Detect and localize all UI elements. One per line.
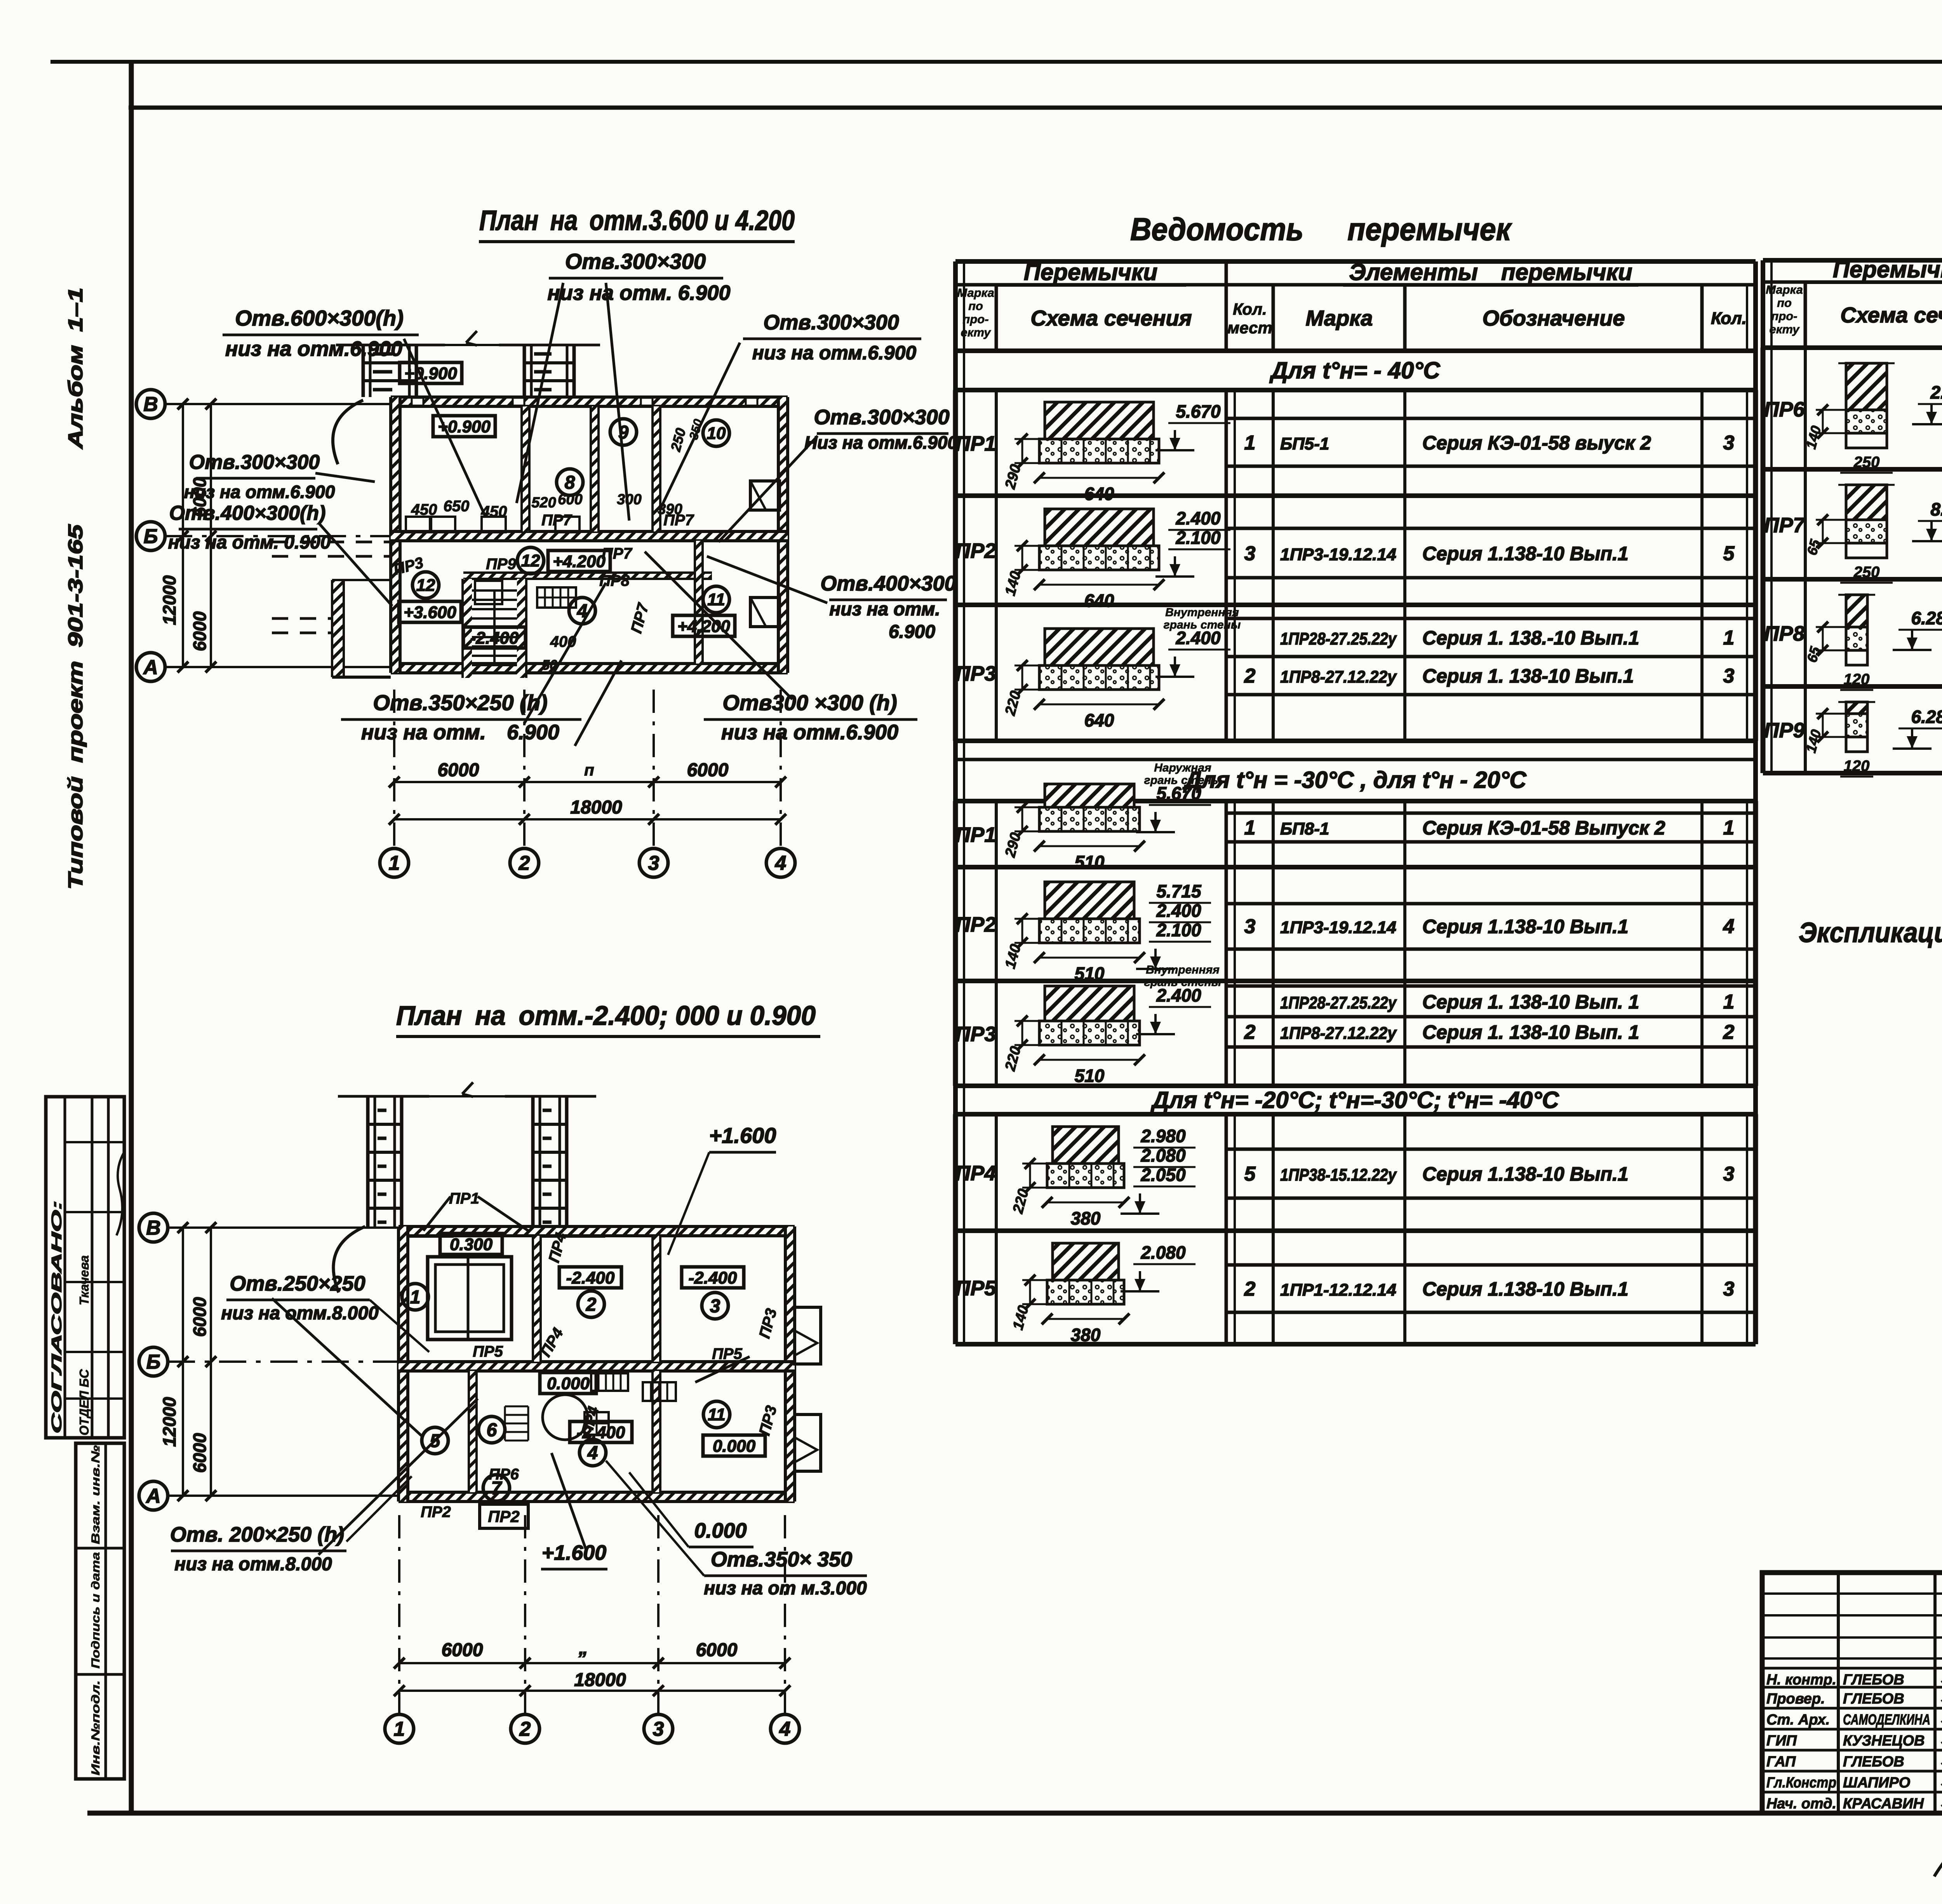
svg-text:ГИП: ГИП: [1766, 1733, 1797, 1749]
svg-text:по: по: [1777, 296, 1792, 310]
svg-text:В: В: [146, 1217, 161, 1239]
svg-text:Отв.400×300(h): Отв.400×300(h): [169, 502, 326, 524]
svg-text:ПР6: ПР6: [1764, 398, 1805, 421]
middle table row ПР3 section B: [955, 979, 1756, 983]
lower plan outer wall left: [398, 1226, 408, 1502]
svg-text:10: 10: [707, 424, 726, 443]
middle table header: [955, 259, 1756, 264]
upper plan door squares right wall: [750, 481, 780, 510]
svg-text:5: 5: [1244, 1163, 1256, 1185]
upper plan outer wall top: [391, 397, 788, 406]
svg-text:1ПР38-15.12.22у: 1ПР38-15.12.22у: [1280, 1165, 1397, 1185]
lower plan partition rooms 5|6: [469, 1371, 477, 1492]
svg-text:2.100: 2.100: [1175, 528, 1221, 548]
svg-text:Подпись и дата: Подпись и дата: [89, 1552, 102, 1669]
page frame bottom line: [87, 1811, 1942, 1816]
svg-text:1: 1: [389, 852, 400, 874]
lower plan bottom dimension chains: [399, 1662, 785, 1664]
svg-text:Схема сечения: Схема сечения: [1030, 306, 1192, 330]
svg-text:Отв.300×300: Отв.300×300: [763, 311, 899, 334]
right table row ПР7: [1763, 467, 1942, 472]
right table row ПР9: [1763, 684, 1942, 689]
svg-text:+1.600: +1.600: [542, 1541, 607, 1564]
svg-text:Отв.400×300: Отв.400×300: [820, 572, 956, 595]
svg-text:ГАП: ГАП: [1766, 1754, 1796, 1770]
svg-text:Ткачева: Ткачева: [77, 1255, 91, 1305]
svg-text:ПР9: ПР9: [1764, 719, 1805, 742]
svg-text:+4.200: +4.200: [553, 552, 606, 571]
upper plan corridor wall: [463, 573, 712, 579]
svg-text:ПР2: ПР2: [421, 1503, 451, 1521]
middle table row ПР1 section B: [955, 799, 1756, 803]
svg-text:ГЛЕБОВ: ГЛЕБОВ: [1843, 1691, 1904, 1707]
svg-text:про-: про-: [1771, 309, 1797, 323]
svg-text:2.400: 2.400: [1156, 901, 1201, 921]
svg-text:Отв.250×250: Отв.250×250: [230, 1272, 365, 1295]
svg-text:ПР8: ПР8: [1764, 622, 1805, 645]
middle table row ПР4: [955, 1112, 1756, 1117]
lower plan outer wall top: [398, 1226, 795, 1236]
svg-text:6000: 6000: [190, 1433, 210, 1473]
svg-text:ШАПИРО: ШАПИРО: [1843, 1775, 1910, 1791]
svg-text:Перемычки: Перемычки: [1833, 256, 1942, 282]
svg-text:низ на отм.6.900: низ на отм.6.900: [752, 342, 917, 364]
svg-text:2: 2: [519, 852, 530, 874]
right table row ПР8: [1763, 577, 1942, 582]
svg-text:низ на отм. 0.900: низ на отм. 0.900: [168, 532, 331, 553]
svg-text:КУЗНЕЦОВ: КУЗНЕЦОВ: [1843, 1733, 1925, 1749]
svg-text:ПР7: ПР7: [1764, 514, 1806, 537]
svg-text:2: 2: [519, 1718, 531, 1740]
svg-text:Для t°н= -20°С; t°н=-30°С; t°н: Для t°н= -20°С; t°н=-30°С; t°н= -40°С: [1150, 1087, 1559, 1113]
upper plan partition 2 upper band: [591, 406, 599, 531]
svg-text:4: 4: [779, 1718, 791, 1740]
svg-text:ПР1: ПР1: [955, 823, 996, 847]
stamp box Инв №подл / Подпись и дата / Взам инв №: [76, 1443, 124, 1779]
upper plan wall on axis Б: [391, 531, 788, 541]
svg-text:грань стены: грань стены: [1144, 774, 1222, 787]
svg-text:380: 380: [1071, 1208, 1101, 1228]
svg-text:низ на отм. 6.900: низ на отм. 6.900: [547, 281, 730, 305]
svg-text:Ст. Арх.: Ст. Арх.: [1766, 1712, 1830, 1728]
svg-text:12: 12: [521, 551, 540, 570]
svg-text:1ПР28-27.25.22у: 1ПР28-27.25.22у: [1280, 993, 1397, 1012]
svg-text:План на отм.-2.400; 000 и 0.90: План на отм.-2.400; 000 и 0.900: [396, 1000, 816, 1031]
page frame left line: [129, 62, 134, 1813]
lower plan stair tower right: [531, 1096, 535, 1226]
svg-text:2: 2: [1244, 1021, 1256, 1043]
svg-text:0.000: 0.000: [713, 1437, 756, 1456]
upper plan fixture grid near stair: [537, 587, 576, 608]
svg-text:Экспликацию помещений см. на: Экспликацию помещений см. на чертеже АР-…: [1799, 917, 1942, 948]
lower plan outer wall right: [785, 1226, 795, 1502]
lower plan level boxes: [440, 1233, 502, 1254]
svg-text:ПР7: ПР7: [541, 512, 572, 529]
middle table row ПР2 section B: [955, 865, 1756, 869]
svg-text:Б: Б: [146, 1351, 161, 1373]
svg-text:Инв.№подл.: Инв.№подл.: [89, 1680, 102, 1775]
page frame inner top line: [129, 106, 1942, 110]
big signature flourish: [1934, 1786, 1942, 1876]
svg-text:1: 1: [394, 1718, 405, 1740]
middle table spacer band: [953, 741, 958, 760]
svg-text:-2.400: -2.400: [470, 629, 519, 648]
svg-text:2.980: 2.980: [1140, 1126, 1186, 1146]
lower plan interior box room 1: [428, 1257, 512, 1340]
lower plan leader lines: [423, 1197, 451, 1231]
svg-text:1ПР8-27.12.22у: 1ПР8-27.12.22у: [1280, 667, 1397, 686]
svg-text:0.000: 0.000: [694, 1519, 747, 1542]
svg-text:3: 3: [1723, 1278, 1735, 1300]
svg-text:3: 3: [1723, 432, 1735, 454]
svg-text:Отв.600×300(h): Отв.600×300(h): [235, 306, 404, 330]
svg-text:ПР2: ПР2: [955, 913, 996, 936]
upper plan level boxes: [400, 362, 462, 383]
svg-text:Н. контр.: Н. контр.: [1766, 1672, 1836, 1688]
svg-text:2.400: 2.400: [1175, 508, 1221, 528]
lower plan wall on axis Б: [398, 1362, 795, 1371]
upper plan curved wall arc: [333, 400, 363, 464]
title block outer: [1762, 1573, 1942, 1813]
svg-text:Отв.300×300: Отв.300×300: [189, 451, 320, 474]
svg-text:низ на отм.8.000: низ на отм.8.000: [221, 1303, 379, 1324]
upper plan partition 1 upper band: [522, 406, 529, 531]
svg-text:0.000: 0.000: [547, 1374, 590, 1393]
svg-text:БП5-1: БП5-1: [1280, 434, 1329, 453]
svg-text:ПР7: ПР7: [602, 545, 632, 562]
svg-text:520: 520: [531, 495, 556, 511]
svg-text:Внутренняя: Внутренняя: [1146, 963, 1220, 976]
lower plan fixtures: [591, 1373, 628, 1391]
svg-text:ПР1: ПР1: [955, 432, 996, 455]
svg-text:БП8-1: БП8-1: [1280, 819, 1329, 838]
svg-text:План на отм.3.600 и 4.200: План на отм.3.600 и 4.200: [479, 205, 795, 236]
svg-text:Для t°н= - 40°С: Для t°н= - 40°С: [1269, 357, 1441, 383]
svg-text:ПР5: ПР5: [712, 1345, 742, 1362]
upper plan window marks top wall: [412, 398, 423, 406]
svg-text:3: 3: [653, 1718, 664, 1740]
middle table row ПР3 section A: [955, 603, 1756, 607]
svg-text:12000: 12000: [159, 575, 179, 625]
middle table section header Для t=-40C: [953, 351, 958, 390]
svg-text:1: 1: [1723, 991, 1735, 1013]
svg-text:2: 2: [1723, 1021, 1735, 1043]
title block signature table: [1837, 1573, 1840, 1813]
svg-text:САМОДЕЛКИНА: САМОДЕЛКИНА: [1843, 1712, 1930, 1728]
upper plan annex walls left: [332, 580, 344, 677]
svg-text:12000: 12000: [159, 1397, 179, 1447]
svg-text:Серия 1.138-10 Вып.1: Серия 1.138-10 Вып.1: [1422, 1163, 1629, 1185]
svg-text:мест: мест: [1227, 319, 1272, 337]
svg-text:грань стены: грань стены: [1144, 976, 1222, 989]
middle table section header Для t=-30C: [953, 760, 958, 801]
svg-text:3: 3: [1723, 1163, 1735, 1185]
svg-text:510: 510: [1075, 1066, 1105, 1086]
svg-text:А: А: [145, 1485, 161, 1507]
svg-text:6000: 6000: [190, 1297, 210, 1337]
upper plan outer wall right: [778, 397, 788, 673]
svg-text:„: „: [578, 1638, 588, 1658]
lower plan partition rooms 4|11: [653, 1371, 660, 1492]
svg-text:ПР3: ПР3: [955, 1023, 996, 1046]
svg-text:ПР5: ПР5: [473, 1343, 503, 1360]
svg-text:1: 1: [1244, 432, 1256, 454]
svg-text:3: 3: [1244, 915, 1256, 938]
svg-text:екту: екту: [1770, 322, 1800, 336]
svg-text:+3.600: +3.600: [404, 603, 456, 622]
upper plan stair tower left: [362, 345, 365, 397]
svg-text:5: 5: [1723, 542, 1735, 565]
svg-text:6000: 6000: [696, 1640, 738, 1660]
right table header: [1763, 258, 1942, 263]
svg-text:450: 450: [411, 501, 437, 518]
upper plan leader lines: [517, 283, 563, 503]
upper plan window grid right room: [475, 581, 502, 604]
svg-text:Взам. инв.№: Взам. инв.№: [89, 1445, 102, 1544]
svg-text:2.050: 2.050: [1140, 1165, 1186, 1185]
svg-text:Альбом 1–1: Альбом 1–1: [64, 287, 87, 450]
svg-text:Отв.350×250 (h): Отв.350×250 (h): [373, 690, 547, 715]
lower plan outer wall bottom: [398, 1492, 795, 1502]
svg-text:4: 4: [587, 1443, 598, 1463]
lower plan stair tower left: [366, 1096, 370, 1226]
svg-text:Отв.350× 350: Отв.350× 350: [711, 1548, 852, 1571]
svg-text:4: 4: [775, 852, 787, 874]
svg-text:ПР9: ПР9: [486, 556, 516, 573]
svg-text:Серия 1.138-10 Вып.1: Серия 1.138-10 Вып.1: [1422, 1278, 1629, 1300]
svg-text:640: 640: [1084, 591, 1114, 611]
svg-text:+1.600: +1.600: [709, 1123, 776, 1148]
svg-text:Обозначение: Обозначение: [1483, 306, 1625, 330]
svg-text:низ на от м.3.000: низ на от м.3.000: [704, 1578, 867, 1599]
svg-text:Перемычки: Перемычки: [1024, 259, 1157, 285]
svg-text:КРАСАВИН: КРАСАВИН: [1843, 1796, 1925, 1812]
svg-text:Отв.300×300: Отв.300×300: [565, 249, 706, 273]
svg-text:Отв.300×300: Отв.300×300: [814, 406, 949, 429]
upper plan partition 3 upper band: [653, 406, 660, 531]
upper plan left dimension chain: [182, 404, 184, 667]
svg-text:18000: 18000: [570, 797, 622, 818]
svg-text:18000: 18000: [574, 1670, 626, 1690]
lower plan grid bubbles 1 2 3 4: [385, 1714, 414, 1743]
svg-text:6000: 6000: [438, 760, 479, 780]
svg-text:ПР1: ПР1: [449, 1190, 479, 1207]
upper plan grid leader lines: [165, 403, 394, 405]
svg-text:В: В: [143, 393, 158, 416]
svg-text:по: по: [968, 299, 983, 313]
svg-text:3: 3: [1723, 665, 1735, 687]
svg-text:2: 2: [586, 1294, 597, 1315]
lower plan porch right 2: [795, 1414, 821, 1471]
svg-text:про-: про-: [962, 312, 988, 326]
svg-text:120: 120: [1844, 758, 1870, 775]
svg-text:8: 8: [565, 472, 575, 493]
svg-text:6.900: 6.900: [889, 622, 935, 642]
svg-text:4: 4: [1723, 915, 1735, 938]
svg-text:2.080: 2.080: [1140, 1242, 1186, 1263]
middle table row ПР1 section A: [955, 388, 1756, 392]
svg-text:Кол.: Кол.: [1233, 300, 1267, 318]
svg-text:1: 1: [410, 1287, 421, 1308]
svg-text:Схема сечения: Схема сечения: [1840, 303, 1942, 327]
svg-text:380: 380: [1071, 1325, 1101, 1345]
upper plan small dim boxes near Б wall: [406, 517, 430, 532]
right table row ПР6: [1763, 345, 1942, 350]
upper plan bottom dimension chains: [394, 781, 781, 783]
lower plan partition rooms 1|2: [533, 1236, 541, 1362]
svg-text:2.100: 2.100: [1156, 920, 1201, 940]
upper plan dashed projection lines: [272, 541, 391, 544]
svg-text:п: п: [584, 761, 594, 779]
svg-text:СОГЛАСОВАНО:: СОГЛАСОВАНО:: [49, 1200, 64, 1434]
svg-text:Типовой проект 901-3-165: Типовой проект 901-3-165: [64, 524, 87, 890]
svg-text:3: 3: [710, 1296, 720, 1317]
svg-text:ГЛЕБОВ: ГЛЕБОВ: [1843, 1754, 1904, 1770]
svg-text:Серия 1. 138-10 Вып. 1: Серия 1. 138-10 Вып. 1: [1422, 991, 1639, 1013]
svg-text:1ПР8-27.12.22у: 1ПР8-27.12.22у: [1280, 1024, 1397, 1043]
upper plan outer wall left: [391, 397, 400, 673]
svg-text:Нач. отд.: Нач. отд.: [1766, 1796, 1836, 1812]
svg-text:Внутренняя: Внутренняя: [1165, 606, 1239, 619]
lower plan partition rooms 2|3: [653, 1236, 660, 1362]
svg-text:Гл.Констр: Гл.Констр: [1766, 1775, 1836, 1791]
svg-text:2: 2: [1244, 1278, 1256, 1300]
svg-text:11: 11: [708, 1405, 726, 1424]
svg-text:Серия 1. 138.-10 Вып.1: Серия 1. 138.-10 Вып.1: [1422, 627, 1639, 649]
svg-text:2.400: 2.400: [1930, 382, 1942, 402]
svg-text:Провер.: Провер.: [1766, 1691, 1825, 1707]
lower plan lintel stubs on В wall: [408, 1226, 452, 1237]
svg-text:-2.400: -2.400: [689, 1268, 737, 1287]
svg-text:12: 12: [416, 576, 435, 595]
svg-text:низ на отм.: низ на отм.: [829, 599, 940, 620]
page frame outer top line: [50, 60, 1942, 64]
svg-text:ПР6: ПР6: [489, 1466, 519, 1483]
svg-text:3: 3: [1244, 542, 1256, 565]
svg-text:6.280: 6.280: [1911, 608, 1942, 628]
svg-text:Серия 1.138-10 Вып.1: Серия 1.138-10 Вып.1: [1422, 543, 1629, 564]
svg-text:1ПР3-19.12.14: 1ПР3-19.12.14: [1280, 545, 1396, 564]
svg-text:3: 3: [648, 852, 660, 874]
lower plan porch right 1: [795, 1307, 821, 1364]
svg-text:Низ на отм.6.900: Низ на отм.6.900: [804, 432, 957, 453]
svg-text:600: 600: [558, 491, 582, 508]
svg-text:8.250: 8.250: [1930, 499, 1942, 519]
svg-text:Кол.: Кол.: [1711, 309, 1747, 328]
middle table section header Для t=-20C: [953, 1086, 958, 1114]
svg-text:грань стены: грань стены: [1164, 618, 1241, 631]
svg-text:6000: 6000: [687, 760, 729, 780]
svg-text:ПР3: ПР3: [955, 662, 996, 685]
svg-text:300: 300: [617, 491, 641, 508]
svg-text:Отв300 ×300 (h): Отв300 ×300 (h): [722, 690, 897, 715]
upper plan partition lower band: [695, 541, 703, 664]
svg-text:ПР2: ПР2: [488, 1507, 520, 1526]
svg-text:Б: Б: [144, 525, 158, 548]
svg-text:ГЛЕБОВ: ГЛЕБОВ: [1843, 1672, 1904, 1688]
svg-text:5.670: 5.670: [1176, 401, 1221, 422]
svg-text:11: 11: [707, 590, 725, 609]
middle table row ПР5: [955, 1228, 1756, 1233]
lower plan room bubbles: [402, 1284, 428, 1310]
svg-text:Серия 1. 138-10 Вып.1: Серия 1. 138-10 Вып.1: [1422, 665, 1634, 687]
svg-text:Элементы перемычки: Элементы перемычки: [1349, 259, 1632, 285]
svg-text:1ПР1-12.12.14: 1ПР1-12.12.14: [1280, 1280, 1396, 1300]
svg-text:2.080: 2.080: [1140, 1145, 1186, 1165]
svg-text:низ на отм.8.000: низ на отм.8.000: [174, 1554, 332, 1575]
svg-text:Марка: Марка: [957, 286, 994, 300]
svg-text:Отв. 200×250 (h): Отв. 200×250 (h): [170, 1523, 344, 1546]
svg-text:низ на отм. 6.900: низ на отм. 6.900: [361, 721, 559, 744]
svg-text:1: 1: [1244, 817, 1256, 839]
svg-text:5.715: 5.715: [1156, 881, 1202, 901]
upper plan grid bubbles В Б А: [136, 390, 165, 418]
svg-text:А: А: [143, 656, 158, 679]
svg-text:Серия КЭ-01-58 выуск 2: Серия КЭ-01-58 выуск 2: [1422, 432, 1651, 454]
upper plan stair shaft: [463, 579, 472, 678]
upper plan stair tower right: [523, 345, 526, 397]
svg-text:Наружная: Наружная: [1154, 761, 1211, 774]
svg-text:Серия 1.138-10 Вып.1: Серия 1.138-10 Вып.1: [1422, 916, 1629, 937]
upper plan outer wall bottom: [391, 664, 788, 673]
svg-text:Марка: Марка: [1306, 306, 1373, 330]
svg-text:2: 2: [1244, 665, 1256, 687]
svg-text:ПР2: ПР2: [955, 539, 996, 563]
svg-text:6000: 6000: [190, 611, 210, 651]
svg-text:Марка: Марка: [1766, 283, 1803, 296]
svg-text:Серия КЭ-01-58 Выпуск 2: Серия КЭ-01-58 Выпуск 2: [1422, 817, 1665, 839]
svg-text:640: 640: [1084, 710, 1114, 730]
lower plan grid bubbles В Б А: [139, 1213, 168, 1242]
svg-text:1ПР28-27.25.22у: 1ПР28-27.25.22у: [1280, 629, 1397, 648]
stamp box Согласовано / Отдел БС / Ткачева: [46, 1097, 124, 1438]
svg-text:Ведомость перемычек: Ведомость перемычек: [1130, 212, 1512, 247]
svg-text:ОТДЕЛ БС: ОТДЕЛ БС: [77, 1369, 91, 1435]
svg-text:екту: екту: [961, 326, 992, 339]
svg-text:низ на отм.6.900: низ на отм.6.900: [225, 337, 402, 361]
lower plan left dimension chain: [182, 1228, 184, 1496]
svg-text:0.300: 0.300: [450, 1235, 493, 1254]
lower plan mini stair: [505, 1406, 528, 1408]
svg-text:650: 650: [444, 498, 470, 515]
svg-text:1: 1: [1723, 817, 1735, 839]
svg-text:+0.900: +0.900: [404, 364, 457, 383]
middle table row ПР2 section A: [955, 493, 1756, 498]
svg-text:6000: 6000: [442, 1640, 483, 1660]
upper plan grid bubbles 1 2 3 4: [380, 848, 409, 877]
svg-text:6.280: 6.280: [1911, 707, 1942, 727]
svg-text:-2.400: -2.400: [566, 1268, 615, 1287]
svg-text:+4.200: +4.200: [677, 617, 730, 636]
svg-text:1: 1: [1723, 627, 1735, 649]
svg-text:6: 6: [487, 1420, 497, 1441]
svg-text:ПР5: ПР5: [955, 1277, 997, 1300]
svg-text:Серия 1. 138-10 Вып. 1: Серия 1. 138-10 Вып. 1: [1422, 1021, 1639, 1043]
svg-text:1ПР3-19.12.14: 1ПР3-19.12.14: [1280, 918, 1396, 937]
svg-text:низ на отм.6.900: низ на отм.6.900: [184, 482, 335, 502]
upper plan room bubbles: [557, 469, 583, 495]
svg-text:Для t°н = -30°С , для t°н - 20: Для t°н = -30°С , для t°н - 20°С: [1183, 767, 1527, 793]
svg-text:низ на отм.6.900: низ на отм.6.900: [721, 721, 898, 744]
svg-text:ПР4: ПР4: [955, 1162, 996, 1185]
